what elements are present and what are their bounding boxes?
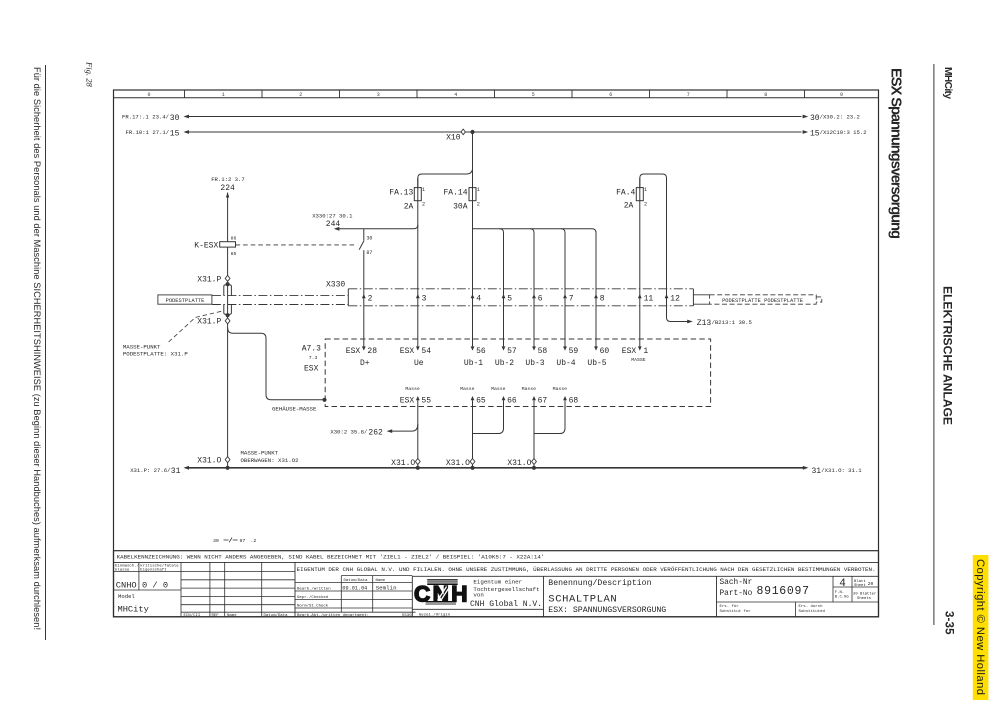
svg-text:EIGENTUM DER CNH GLOBAL N.V. U: EIGENTUM DER CNH GLOBAL N.V. UND FILIALE… xyxy=(297,566,876,573)
svg-text:FA.14: FA.14 xyxy=(443,189,467,198)
svg-text:Ub-2: Ub-2 xyxy=(495,359,514,368)
svg-text:65: 65 xyxy=(476,397,486,406)
svg-text:X31.O: X31.O xyxy=(197,456,221,465)
wire FA.13 to pin 3 xyxy=(417,178,419,346)
svg-text:55: 55 xyxy=(421,397,431,406)
svg-text:11: 11 xyxy=(644,295,654,304)
connector X330 box xyxy=(347,289,349,306)
svg-text:MASSE: MASSE xyxy=(631,357,646,363)
svg-text:Copyright © New Holland: Copyright © New Holland xyxy=(974,559,986,695)
drawing frame xyxy=(114,90,879,617)
svg-text:FA.4: FA.4 xyxy=(616,189,635,198)
svg-text:KABELKENNZEICHNUNG: WENN NICHT: KABELKENNZEICHNUNG: WENN NICHT ANDERS AN… xyxy=(117,553,545,560)
svg-text:Substitut for: Substitut for xyxy=(720,609,752,614)
svg-text:6: 6 xyxy=(609,92,612,98)
svg-text:FR.1:2 3.7: FR.1:2 3.7 xyxy=(211,176,245,183)
svg-text:0: 0 xyxy=(147,92,150,98)
svg-text:15: 15 xyxy=(810,129,820,138)
svg-text:/B213:1 30.5: /B213:1 30.5 xyxy=(712,319,752,326)
relay contact K-ESX 30/87 xyxy=(363,229,365,241)
svg-text:2A: 2A xyxy=(624,202,634,211)
svg-text:ESX: SPANNUNGSVERSORGUNG: ESX: SPANNUNGSVERSORGUNG xyxy=(548,606,666,615)
svg-text:X31.P: X31.P xyxy=(197,318,221,327)
svg-text:CNHO: CNHO xyxy=(116,581,137,591)
svg-text:2A: 2A xyxy=(404,202,414,211)
svg-text:262: 262 xyxy=(368,429,383,438)
svg-text:3-35: 3-35 xyxy=(943,611,955,635)
node X10 xyxy=(470,130,474,134)
svg-text:PODESTPLATTE: PODESTPLATTE xyxy=(166,298,205,304)
svg-text:60: 60 xyxy=(600,347,610,356)
svg-text:X31.P: 27.6/: X31.P: 27.6/ xyxy=(130,467,171,474)
ESX bottom pins xyxy=(416,396,420,400)
fuse FA.14 xyxy=(469,188,476,201)
controller A7.3 ESX dashed box xyxy=(325,339,710,407)
wire KL15 top xyxy=(187,131,802,133)
svg-text:31: 31 xyxy=(171,467,181,476)
wire K-ESX coil down to X31.P xyxy=(227,247,229,468)
svg-text:4: 4 xyxy=(476,295,481,304)
svg-text:Ub-5: Ub-5 xyxy=(587,359,606,368)
svg-text:K-ESX: K-ESX xyxy=(194,242,218,251)
svg-text:Sach-Nr: Sach-Nr xyxy=(720,579,753,587)
svg-text:Ub-4: Ub-4 xyxy=(556,359,575,368)
svg-text:30: 30 xyxy=(170,114,180,123)
drop to pin 7 xyxy=(561,229,565,347)
svg-text:5: 5 xyxy=(507,295,512,304)
wire 224 feed to K-ESX coil xyxy=(227,193,229,242)
bracket below plate xyxy=(224,304,232,314)
svg-text:85: 85 xyxy=(231,251,237,257)
svg-text:X30:2 35.8/: X30:2 35.8/ xyxy=(330,428,368,435)
svg-text:Ue: Ue xyxy=(414,359,424,368)
ground bus 31 xyxy=(187,467,805,469)
svg-text:09.01.04: 09.01.04 xyxy=(342,585,367,591)
svg-text:20 Blätter: 20 Blätter xyxy=(853,592,876,597)
svg-text:X31.P: X31.P xyxy=(197,275,221,284)
column separators xyxy=(184,90,186,98)
svg-text:ESX: ESX xyxy=(304,365,319,374)
svg-text:3: 3 xyxy=(422,295,427,304)
svg-text:5: 5 xyxy=(532,92,535,98)
svg-text:Ub-3: Ub-3 xyxy=(525,359,544,368)
relay coil K-ESX xyxy=(220,242,236,247)
svg-text:OBERWAGEN: X31.O2: OBERWAGEN: X31.O2 xyxy=(241,457,300,464)
svg-text:Ub-1: Ub-1 xyxy=(464,359,483,368)
svg-text:von: von xyxy=(473,591,483,598)
svg-text:CNH Global N.V.: CNH Global N.V. xyxy=(470,600,542,609)
svg-text:Part-No: Part-No xyxy=(720,590,753,598)
svg-text:Bearb.Abt./written department:: Bearb.Abt./written department: xyxy=(297,613,369,618)
svg-text:7: 7 xyxy=(687,92,690,98)
svg-text:PODESTPLATTE PODESTPLATTE: PODESTPLATTE PODESTPLATTE xyxy=(722,298,803,304)
svg-text:2: 2 xyxy=(477,202,480,208)
drop to pin 5 xyxy=(500,229,504,347)
leader masse-punkt podestplatte xyxy=(169,311,223,342)
svg-text:/X12C19:3 15.2: /X12C19:3 15.2 xyxy=(820,129,867,136)
wire pin 12 to Z13 xyxy=(667,318,690,322)
svg-text:8916097: 8916097 xyxy=(757,585,810,598)
svg-text:4: 4 xyxy=(839,578,846,590)
rail from relay to FA.13 xyxy=(337,225,418,229)
svg-text:Eigenschaft: Eigenschaft xyxy=(140,568,166,573)
svg-text:68: 68 xyxy=(569,397,579,406)
svg-text:MASSE-PUNKT: MASSE-PUNKT xyxy=(241,450,279,457)
dashed control link coil to contact xyxy=(236,244,357,246)
svg-text:Fig. 28: Fig. 28 xyxy=(85,61,95,88)
svg-text:Ers. durch: Ers. durch xyxy=(799,604,824,609)
svg-text:Eigentum einer: Eigentum einer xyxy=(473,578,522,585)
svg-text:Substituted: Substituted xyxy=(799,609,826,614)
svg-text:MHCity: MHCity xyxy=(118,604,149,614)
svg-text:224: 224 xyxy=(220,184,235,193)
svg-text:ESX Spannungsversorgung: ESX Spannungsversorgung xyxy=(888,68,904,239)
svg-text:ELEKTRISCHE ANLAGE: ELEKTRISCHE ANLAGE xyxy=(941,286,955,425)
wire ESX55 to ground xyxy=(417,400,419,468)
svg-text:54: 54 xyxy=(421,347,431,356)
column strip line xyxy=(114,97,879,99)
node X31.P lower xyxy=(226,313,230,317)
drop to pin 6 xyxy=(530,229,534,347)
svg-text:X330:27 30.1: X330:27 30.1 xyxy=(312,212,353,219)
svg-text:30: 30 xyxy=(366,236,372,242)
svg-text:66: 66 xyxy=(507,397,517,406)
svg-text:Model: Model xyxy=(118,593,135,600)
svg-text:30A: 30A xyxy=(453,202,468,211)
svg-text:Benennung/Description: Benennung/Description xyxy=(548,578,651,588)
pedestal plate box right (dashed) xyxy=(710,295,817,304)
svg-text:Name: Name xyxy=(227,614,237,618)
svg-text:87: 87 xyxy=(240,538,246,544)
wire KL30 top xyxy=(187,116,802,118)
svg-text:klasse: klasse xyxy=(115,568,130,573)
svg-text:Z13: Z13 xyxy=(697,319,712,328)
gehaeuse-masse wire xyxy=(228,328,325,400)
svg-text:8: 8 xyxy=(764,92,767,98)
svg-text:Datum/Data: Datum/Data xyxy=(344,578,369,583)
svg-text:Bearb./written: Bearb./written xyxy=(297,586,331,591)
svg-text:15: 15 xyxy=(170,129,180,138)
svg-text:87: 87 xyxy=(366,250,372,256)
svg-text:X31.O: X31.O xyxy=(446,459,470,468)
svg-text:86: 86 xyxy=(231,236,237,242)
svg-text:2: 2 xyxy=(644,202,647,208)
svg-text:1: 1 xyxy=(643,347,648,356)
svg-text:7: 7 xyxy=(569,295,574,304)
svg-text:0 / 0: 0 / 0 xyxy=(142,581,168,591)
branch 262 xyxy=(391,424,418,431)
svg-text:/X30.2: 23.2: /X30.2: 23.2 xyxy=(820,113,860,120)
svg-text:30: 30 xyxy=(810,114,820,123)
svg-text:MHCity: MHCity xyxy=(942,67,953,99)
svg-text:2: 2 xyxy=(368,295,373,304)
title block grid lines xyxy=(138,562,140,590)
svg-text:58: 58 xyxy=(538,347,548,356)
svg-text:ESX: ESX xyxy=(622,347,637,356)
svg-text:9: 9 xyxy=(840,92,843,98)
svg-text:3: 3 xyxy=(377,92,380,98)
svg-text:SCHALTPLAN: SCHALTPLAN xyxy=(548,593,617,605)
rail FA.14 to pins 5-8 xyxy=(473,229,597,347)
svg-text:Ers. für: Ers. für xyxy=(720,604,740,609)
svg-text:Gezei./Origin: Gezei./Origin xyxy=(419,612,451,617)
svg-text:28: 28 xyxy=(367,347,377,356)
wire 66 merge into 65 xyxy=(473,400,504,433)
svg-text:57: 57 xyxy=(507,347,517,356)
wire FA.4 to pin 11 xyxy=(639,178,641,346)
svg-text:FA.13: FA.13 xyxy=(389,189,413,198)
svg-text:Masse: Masse xyxy=(553,386,568,392)
svg-text:30: 30 xyxy=(213,538,219,544)
svg-text:59: 59 xyxy=(569,347,579,356)
svg-text:X330: X330 xyxy=(326,280,345,289)
wire 65 to ground xyxy=(472,400,474,468)
svg-text:.2: .2 xyxy=(251,538,257,544)
fuse FA.13 xyxy=(414,188,421,201)
bracket above plate xyxy=(224,285,232,295)
svg-text:CNH: CNH xyxy=(414,582,468,607)
branch to FA.13 top xyxy=(418,170,473,188)
svg-text:PODESTPLATTE: X31.P: PODESTPLATTE: X31.P xyxy=(123,351,188,358)
X330 pins xyxy=(362,294,366,298)
svg-text:31: 31 xyxy=(812,467,822,476)
svg-text:F.N.: F.N. xyxy=(835,591,844,595)
X31.O connector labels xyxy=(225,457,230,463)
svg-text:Für die Sicherheit des Persona: Für die Sicherheit des Personals und der… xyxy=(32,67,42,630)
pedestal plate box left xyxy=(158,295,212,304)
svg-text:ESX: ESX xyxy=(400,347,415,356)
svg-text:1: 1 xyxy=(422,187,425,193)
svg-text:FR.10:1 27.1/: FR.10:1 27.1/ xyxy=(126,129,170,136)
ESX top pins xyxy=(362,346,366,350)
title block outer and note row xyxy=(114,551,879,617)
fuse FA.4 xyxy=(636,188,643,201)
svg-text:244: 244 xyxy=(326,220,341,229)
svg-text:A7.3: A7.3 xyxy=(302,344,321,353)
svg-text:GEHÄUSE-MASSE: GEHÄUSE-MASSE xyxy=(272,405,317,412)
svg-text:1: 1 xyxy=(222,92,225,98)
svg-text:REF: REF xyxy=(212,614,220,618)
svg-text:5530: 5530 xyxy=(402,614,412,618)
svg-text:1: 1 xyxy=(477,187,480,193)
svg-text:1: 1 xyxy=(644,187,647,193)
svg-text:8: 8 xyxy=(600,295,605,304)
svg-text:56: 56 xyxy=(476,347,486,356)
svg-text:X31.O: X31.O xyxy=(507,459,531,468)
svg-text:D+: D+ xyxy=(360,359,370,368)
svg-text:Masse: Masse xyxy=(460,386,475,392)
svg-text:MASSE-PUNKT: MASSE-PUNKT xyxy=(123,343,161,350)
svg-text:B.C.No: B.C.No xyxy=(835,595,850,599)
svg-text:6: 6 xyxy=(538,295,543,304)
svg-text:X10: X10 xyxy=(446,134,461,143)
left margin rule xyxy=(45,65,47,640)
arrow wire 244 xyxy=(334,227,340,231)
svg-text:ECN/CII: ECN/CII xyxy=(184,613,201,618)
plate band dash-dot left xyxy=(212,295,348,297)
wire 68 merge into 67 xyxy=(534,400,565,433)
svg-text:12: 12 xyxy=(670,295,680,304)
svg-text:Gepr./Checked: Gepr./Checked xyxy=(297,595,329,600)
svg-text:X31.O: X31.O xyxy=(391,459,415,468)
svg-text:FR.17:.1 23.4/: FR.17:.1 23.4/ xyxy=(122,114,170,121)
wire X10 down to FA.14 and pin 4 xyxy=(472,132,474,346)
svg-text:2: 2 xyxy=(299,92,302,98)
svg-text:Sheets: Sheets xyxy=(857,596,872,601)
svg-text:Masse: Masse xyxy=(405,386,420,392)
CNH logo xyxy=(427,579,458,580)
svg-text:2: 2 xyxy=(422,202,425,208)
copyright yellow bar xyxy=(973,555,989,700)
band right to pedestal boxes xyxy=(693,294,709,296)
svg-text:4: 4 xyxy=(454,92,457,98)
svg-text:Name: Name xyxy=(376,579,386,583)
svg-text:Masse: Masse xyxy=(522,386,537,392)
fuse FA.4 loop top xyxy=(640,174,667,318)
svg-text:/X31.O: 31.1: /X31.O: 31.1 xyxy=(821,467,862,474)
svg-text:Semlin: Semlin xyxy=(376,584,397,591)
wire 67 to ground xyxy=(533,400,535,468)
svg-text:67: 67 xyxy=(538,397,548,406)
svg-text:ESX: ESX xyxy=(346,347,361,356)
svg-text:20: 20 xyxy=(868,581,874,587)
svg-text:7.3: 7.3 xyxy=(309,355,318,361)
right margin rule xyxy=(933,64,935,625)
svg-text:Norm/St.Check: Norm/St.Check xyxy=(297,603,329,608)
svg-text:ESX: ESX xyxy=(400,397,415,406)
svg-text:Masse: Masse xyxy=(491,386,506,392)
svg-text:Datum/Data: Datum/Data xyxy=(264,613,289,618)
svg-text:Sheet: Sheet xyxy=(854,583,866,588)
node X31.P upper xyxy=(225,275,230,281)
